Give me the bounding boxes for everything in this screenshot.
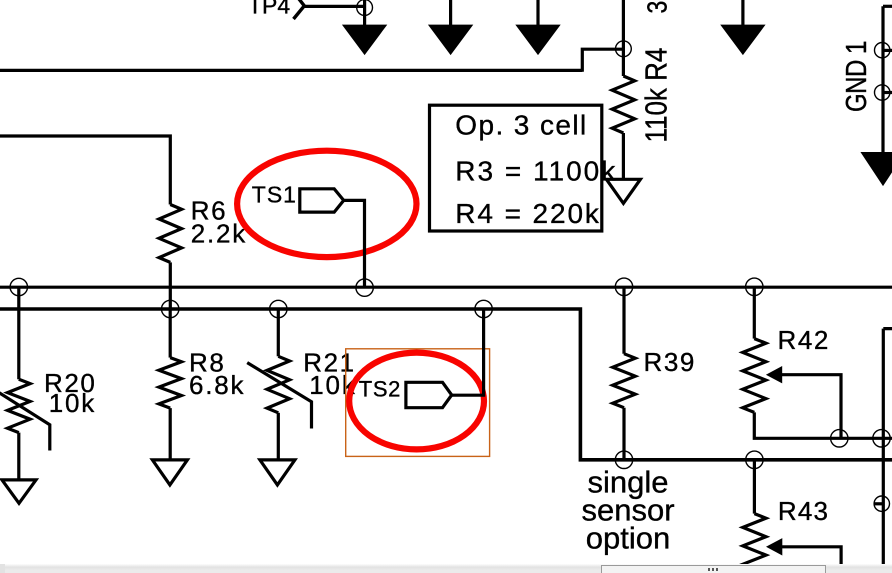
GND 1 pin wire top (883, 5, 892, 8)
node circle R39 bottom (615, 451, 632, 468)
potentiometer R42 (743, 339, 766, 413)
node circle left bus (10, 278, 27, 295)
scrollbar grip (708, 568, 710, 572)
wire arrow 4 stem (741, 0, 744, 26)
wire R4 bottom lead (622, 133, 625, 179)
node circle R6 R8 (162, 300, 179, 317)
R42 wiper arrow (766, 366, 782, 383)
wire R21 bottom lead (277, 413, 280, 460)
svg-text:R43: R43 (778, 496, 829, 526)
note box Op. 3 cell (430, 105, 602, 231)
wire R42 bottom lead (754, 412, 892, 438)
pin stub into circle on box edge (874, 502, 884, 505)
node circle TS1 bus (356, 279, 373, 296)
rheostat R21 wiper diagonal (247, 363, 311, 429)
node circle TP4 (357, 0, 373, 15)
component box right edge (883, 329, 892, 573)
svg-text:R4 = 220k: R4 = 220k (455, 198, 601, 229)
potentiometer R43 (743, 514, 766, 573)
bus top horizontal (0, 286, 892, 289)
wire R4 top lead from top edge (622, 0, 625, 76)
node circle R42 top (746, 278, 763, 295)
node circle R42 wiper junction (831, 430, 848, 447)
wire R6 bottom lead to bus (169, 262, 172, 309)
resistor R39 (613, 354, 636, 408)
red ellipse around TS2 (349, 353, 484, 450)
svg-text:110k R4: 110k R4 (640, 48, 673, 143)
node circle TS2 bus (475, 300, 492, 317)
rheostat R21 (267, 356, 290, 413)
wire R8 top lead (169, 309, 172, 358)
svg-text:2.2k: 2.2k (191, 219, 247, 249)
rheostat R20 wiper diagonal (0, 386, 50, 451)
svg-text:Op. 3 cell: Op. 3 cell (455, 110, 587, 141)
wire R39 bottom lead (622, 408, 625, 460)
thermal sensor TS1 symbol (300, 189, 344, 212)
wire R43 top lead (753, 460, 756, 514)
arrow 1 (filled down) (345, 26, 384, 52)
scrollbar track (0, 564, 892, 573)
wire TP4 to node (304, 5, 365, 8)
selection rectangle around TS2 (346, 349, 490, 457)
node circle R21 top (270, 300, 287, 317)
wire TS1 to bus (344, 200, 365, 287)
GND 1 vertical wire (881, 6, 884, 154)
svg-text:option: option (586, 520, 670, 555)
wire arrow 1 stem (363, 0, 366, 26)
svg-text:10k: 10k (49, 388, 96, 418)
wire R21 top lead (277, 309, 280, 356)
GND arrow (filled down) (863, 154, 892, 184)
pin circle on box edge (874, 496, 889, 511)
test point TP4 chevron (294, 0, 305, 19)
wire R8 bottom lead (169, 408, 172, 460)
node circle R42 at box edge (873, 430, 890, 447)
wire arrow 3 stem (536, 0, 539, 26)
wire R20 top lead (17, 287, 20, 379)
wire R39 top lead (622, 287, 625, 354)
wire TS2 to bus (452, 309, 484, 395)
svg-text:R3 = 1100k: R3 = 1100k (455, 155, 617, 186)
svg-text:TP4: TP4 (248, 0, 290, 19)
pin stub 1 (882, 49, 892, 52)
R43 wiper arrow (766, 538, 782, 555)
resistor R6 (159, 205, 182, 263)
wire left net into R6 (0, 136, 170, 205)
ground below R4 (606, 179, 640, 203)
arrow 4 (filled down) (723, 26, 762, 52)
svg-text:3: 3 (642, 1, 672, 14)
wire R42 top lead (753, 287, 756, 338)
R42 wiper wire (781, 375, 841, 439)
scrollbar thumb (601, 565, 826, 573)
resistor R4 (612, 76, 635, 133)
rheostat R20 (8, 379, 31, 432)
pin circle 1 (875, 43, 890, 58)
pin circle 2 (875, 85, 890, 100)
svg-text:R39: R39 (644, 347, 697, 377)
svg-text:6.8k: 6.8k (189, 370, 245, 400)
thermal sensor TS2 symbol (406, 382, 452, 407)
arrow 3 (filled down) (519, 26, 558, 52)
node circle R43 top (746, 451, 763, 468)
R43 wiper wire (781, 547, 841, 566)
pin stub 2 (882, 91, 892, 94)
svg-text:TS2: TS2 (359, 377, 401, 402)
arrow 2 (filled down) (431, 26, 470, 52)
bus second horizontal with step down (0, 309, 892, 460)
node circle R39 top (615, 278, 632, 295)
red ellipse around TS1 (237, 151, 416, 257)
wire step from top net up to R4 node (582, 49, 623, 72)
scrollbar corner square (0, 564, 5, 573)
resistor R8 (159, 358, 182, 409)
svg-text:TS1: TS1 (252, 182, 297, 208)
wire arrow 2 stem (449, 0, 452, 26)
svg-text:GND 1: GND 1 (840, 41, 873, 112)
ground below R8 (152, 460, 187, 485)
svg-text:R42: R42 (778, 325, 831, 355)
ground below R21 (260, 460, 295, 485)
wire R20 bottom lead (17, 433, 20, 480)
wire top horizontal net (0, 69, 582, 72)
ground below R20 (2, 480, 36, 503)
node circle above R4 (616, 41, 632, 57)
